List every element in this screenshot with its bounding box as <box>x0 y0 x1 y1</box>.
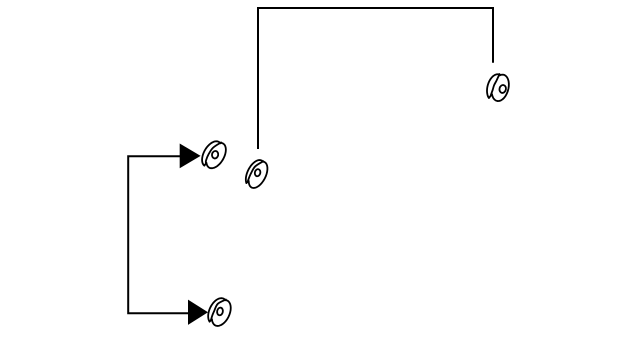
grommet D rim arc <box>211 300 226 320</box>
grommet D outline (silhouette) <box>208 298 231 326</box>
grommet C hole <box>499 84 507 93</box>
grommet B outline (silhouette) <box>246 160 268 188</box>
arrow 2 (bottom leader arrowhead) <box>188 300 208 325</box>
arrow 1 (top leader arrowhead) <box>180 144 201 169</box>
grommet A rim arc <box>206 142 221 163</box>
grommet B rim arc <box>248 161 264 181</box>
grommet A hole <box>211 150 219 159</box>
grommet C outline (silhouette) <box>487 74 509 101</box>
grommet A (top-left, pointed by arrow 1) <box>202 141 226 168</box>
leader line: top bracket linking grommet B and grommet C <box>258 8 493 149</box>
grommet C (top-right, below right vertical wire) <box>487 74 509 101</box>
grommet D (bottom, pointed by arrow 2) <box>208 298 231 326</box>
grommet D hole <box>216 307 223 316</box>
grommet B hole <box>254 169 261 177</box>
leader line: left bracket linking arrow 1 and arrow 2 <box>128 156 193 313</box>
grommet A outline (silhouette) <box>202 141 226 168</box>
grommet B (center, below left vertical wire) <box>246 160 268 188</box>
grommet C rim arc <box>491 74 500 95</box>
